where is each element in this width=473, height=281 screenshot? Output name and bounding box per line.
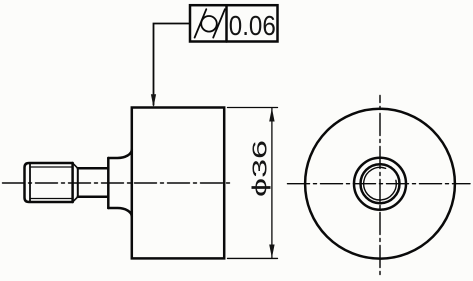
neck outline (78, 168, 109, 197)
thread minor diameter line bottom (30, 198, 73, 200)
end view vertical centerline (379, 96, 381, 276)
thread runout chamfer (73, 163, 78, 202)
left view centerline (3, 182, 234, 184)
svg-text:ϕ36: ϕ36 (248, 140, 271, 197)
thread minor diameter line top (30, 166, 73, 168)
thread left chamfer line (29, 164, 31, 202)
flange circle (354, 158, 406, 210)
thread major circle (361, 164, 400, 203)
end view outer circle (305, 109, 455, 259)
dimension arrowhead top (269, 108, 274, 122)
leader line (154, 24, 191, 106)
thread outer profile (25, 163, 73, 202)
cylinder body rectangle (132, 108, 224, 259)
flange bottom edge and fillet (108, 208, 132, 217)
svg-text:0.06: 0.06 (229, 10, 276, 41)
end view horizontal centerline (288, 183, 471, 185)
feature control frame (190, 5, 278, 41)
cylindricity symbol (195, 9, 225, 37)
thread minor arc (364, 167, 397, 200)
flange top edge and fillet (108, 150, 132, 159)
thread end face (71, 163, 74, 202)
flange face (107, 158, 110, 208)
leader arrowhead (151, 94, 156, 107)
dimension arrowhead bottom (269, 245, 274, 259)
extension line top (228, 107, 278, 109)
extension line bottom (228, 257, 278, 259)
dimension line (271, 108, 273, 258)
